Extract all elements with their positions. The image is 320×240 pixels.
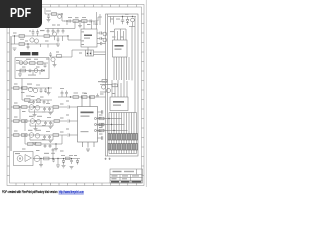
label row3b values <box>30 140 34 141</box>
capacitor C31 <box>48 135 51 139</box>
plus mark 2 <box>109 158 111 161</box>
label C4 value <box>46 11 51 12</box>
wire row1 main <box>11 106 66 108</box>
resistor R13 <box>57 55 62 58</box>
wire center rail <box>58 96 106 98</box>
junction dot k <box>19 106 20 107</box>
diode D3 <box>76 159 79 165</box>
title block row line 3 <box>110 179 143 181</box>
U2 right pin 3 wire <box>97 43 101 45</box>
junction dot d <box>66 20 67 21</box>
capacitor C34 <box>49 144 52 148</box>
junction dot h <box>21 87 22 88</box>
title block field text row2 <box>112 175 118 176</box>
label center values <box>60 88 64 89</box>
capacitor C2 <box>36 30 39 37</box>
ground GND10 <box>86 149 90 151</box>
wire bottom main <box>33 158 80 160</box>
junction dot g <box>48 87 49 88</box>
junction dot x <box>113 130 114 131</box>
resistor R21 <box>22 120 28 123</box>
transistor Q18 <box>35 106 40 111</box>
wire input vertical <box>44 8 46 14</box>
wire row3b <box>25 143 62 145</box>
ladder resistor bank row 2 <box>108 144 110 151</box>
transistor Q5 <box>103 32 107 36</box>
IC U2 <box>81 29 97 47</box>
junction dot q <box>40 158 41 159</box>
transistor Q19 <box>30 119 35 124</box>
svg-text:PDF created with FinePrint pdf: PDF created with FinePrint pdfFactory tr… <box>2 190 58 194</box>
transistor Q12 <box>106 88 110 92</box>
label speck 42 <box>84 93 87 94</box>
capacitor C42 <box>95 23 98 24</box>
junction dot r <box>57 158 58 159</box>
frame inner border <box>10 7 142 183</box>
transistor Q10 <box>131 18 135 22</box>
coupling capacitor C32 <box>66 133 78 136</box>
label speck 36 <box>112 93 116 94</box>
resistor R44 <box>102 80 107 83</box>
capacitor C13 <box>101 42 106 45</box>
relay box K1 <box>86 50 94 56</box>
wire vertical inner left bus <box>107 14 109 156</box>
U2 pin marks left <box>82 31 85 34</box>
label speck 41 <box>74 155 77 156</box>
junction dot i <box>81 96 82 97</box>
junction dot m <box>24 120 25 121</box>
wire input top <box>45 13 62 15</box>
label speck 22 <box>60 104 64 105</box>
junction dot a <box>14 35 15 36</box>
label speck 19 <box>42 125 46 126</box>
U3 top pin wires <box>115 29 127 40</box>
resistor R5 <box>73 20 79 23</box>
plus mark 1 <box>105 158 107 161</box>
capacitor C14 <box>44 63 47 68</box>
label speck 28 <box>99 115 103 116</box>
wire vertical feed U2 b <box>99 14 101 25</box>
capacitor C12 <box>100 37 103 40</box>
output tap row line 3 <box>97 130 128 132</box>
capacitor C17 <box>44 88 47 93</box>
capacitor C15 <box>29 69 32 73</box>
label jack <box>15 153 20 154</box>
label speck 8 <box>16 60 20 61</box>
ladder vertical wires <box>109 113 137 154</box>
capacitor C20 <box>49 52 52 57</box>
label speck 1 <box>13 33 17 34</box>
svg-text:http://www.fineprint.com: http://www.fineprint.com <box>59 190 84 194</box>
resistor R40 <box>112 84 118 87</box>
frame outer border <box>7 5 144 186</box>
label speck 2 <box>25 41 28 42</box>
wire stub downs <box>67 21 94 26</box>
label speck 16 <box>22 111 26 112</box>
transistor Q4 <box>58 15 62 19</box>
ground GND3 <box>78 26 82 28</box>
resistor R10 <box>14 87 20 90</box>
ground GND17 <box>33 143 37 145</box>
frame zone ticks left <box>7 14 10 176</box>
label speck 5 <box>57 25 60 26</box>
transistor Q11 <box>101 85 105 89</box>
resistor R8 <box>38 62 44 65</box>
capacitor C11 <box>100 31 103 34</box>
resistor R7 <box>30 62 36 65</box>
IC U1 body <box>78 107 98 143</box>
label speck 24 <box>60 132 64 133</box>
label speck 33 <box>112 37 116 38</box>
junction dot s <box>52 158 53 159</box>
capacitor C19 <box>43 100 46 104</box>
wire row1 stub gnd <box>34 110 36 115</box>
ladder resistor bank row 1 <box>108 134 110 141</box>
label speck 14 <box>40 97 44 98</box>
wire stub left top <box>111 17 114 25</box>
wire stub v <box>48 88 50 93</box>
output tap row line 1 <box>97 118 122 120</box>
capacitor C35 <box>102 110 103 113</box>
wire U2 top stubs <box>84 21 92 29</box>
wire stub q16 <box>54 62 56 65</box>
transistor Q9 <box>34 69 38 73</box>
label speck 23 <box>60 118 64 119</box>
title block footer text row <box>111 181 119 183</box>
wire top feed horizontal <box>108 16 136 18</box>
junction dot p <box>55 143 56 144</box>
wire stub d <box>62 36 64 41</box>
wire main horizontal A <box>12 35 60 37</box>
wire row1 branch <box>29 109 53 113</box>
diode D8 <box>126 17 129 25</box>
transistor Q8 <box>24 61 28 65</box>
wire mid <box>50 50 86 57</box>
title block column divider 2 <box>130 175 132 184</box>
capacitor C10 <box>62 29 65 34</box>
transistor Q17 <box>29 105 34 110</box>
wire gnd stub 1 <box>40 159 42 165</box>
transistor Q22 <box>35 134 40 139</box>
capacitor C33 <box>44 144 47 148</box>
label bottom values <box>44 153 49 154</box>
capacitor C8 <box>52 29 55 34</box>
label speck 31 <box>110 19 114 20</box>
label speck 21 <box>42 139 46 140</box>
ground GND7 <box>33 115 37 117</box>
connector pin circle P1 <box>94 117 96 119</box>
capacitor C18 <box>32 100 35 104</box>
wire series row <box>64 20 98 22</box>
label speck 29 <box>99 127 103 128</box>
label speck 26 <box>66 115 69 116</box>
capacitor C16 <box>40 88 43 93</box>
wire left bus vertical <box>10 36 12 151</box>
label speck 12 <box>21 92 25 93</box>
U1 label text <box>81 112 94 114</box>
resistor R28 <box>44 157 50 160</box>
frame zone ticks right <box>142 14 145 176</box>
title block column divider 3 <box>136 169 138 175</box>
input jack box <box>14 152 34 166</box>
jack circle J1 <box>17 156 23 162</box>
label speck 6 <box>75 17 79 18</box>
label speck 25 <box>66 101 69 102</box>
capacitor C1 <box>32 30 35 37</box>
resistor R29 <box>66 157 71 160</box>
U2 right pin 1 wire <box>97 32 100 34</box>
resistor R16 <box>90 96 95 99</box>
label POWER title bar 1 <box>20 52 31 55</box>
label speck 35 <box>104 81 108 82</box>
resistor R14 <box>73 96 79 99</box>
label speck 7 <box>87 24 91 25</box>
wire right bus <box>132 17 135 113</box>
label speck 18 <box>14 117 18 118</box>
resistor R3 <box>44 35 50 38</box>
transistor Q6 <box>103 38 107 42</box>
label speck 32 <box>125 14 129 15</box>
U2 right pin 2 wire <box>97 38 100 40</box>
junction dot e <box>79 20 80 21</box>
transistor Q3 <box>52 32 56 36</box>
label speck 45 <box>79 53 82 54</box>
K1 contact dots <box>87 53 88 54</box>
junction dot u <box>132 16 133 17</box>
title block row line 2 <box>110 177 143 179</box>
transistor Q2 <box>34 39 38 43</box>
label speck 44 <box>56 52 59 53</box>
diode D2 <box>62 161 65 165</box>
resistor R19 <box>53 106 59 109</box>
wire row2 branch <box>30 123 53 126</box>
connector pin circle P2 <box>94 123 96 125</box>
capacitor C6 <box>90 19 91 22</box>
capacitor C5 <box>69 19 70 22</box>
coupling capacitor C26 <box>66 105 78 108</box>
capacitor C9 <box>57 29 60 34</box>
label speck 37 <box>100 94 104 95</box>
ground GND11 <box>39 165 43 167</box>
junction dot v <box>108 118 109 119</box>
title block title text <box>113 171 122 172</box>
U1 right pin stubs <box>98 112 102 138</box>
wire row interconnect <box>20 107 25 131</box>
ground GND4 <box>18 74 22 76</box>
coupling capacitor C29 <box>66 119 78 122</box>
label row2 values <box>29 116 34 117</box>
wire preamp row <box>100 85 112 93</box>
transistor Q15 <box>37 98 41 102</box>
ground GND16 <box>49 140 53 142</box>
wire stub down 3 <box>63 159 65 161</box>
label row3 values <box>28 130 33 131</box>
wire main horizontal B <box>11 43 59 45</box>
capacitor C43 <box>57 36 60 43</box>
title block field text row3 <box>112 178 117 179</box>
capacitor C25 <box>48 107 51 111</box>
ground GND15 <box>49 126 53 128</box>
capacitor C23 <box>96 94 99 98</box>
ground GND1 <box>13 48 17 50</box>
resistor R6 <box>82 20 88 23</box>
tone/control section enclosure box <box>106 14 139 156</box>
connector pin circle P3 <box>94 129 96 131</box>
diode D1 <box>42 69 45 72</box>
ground GND9 <box>54 149 58 151</box>
label speck 10 <box>36 67 40 68</box>
jack inner dot <box>19 158 21 160</box>
resistor R20 <box>14 120 20 123</box>
page right edge <box>145 0 147 187</box>
transistor Q21 <box>29 133 34 138</box>
junction dot center <box>70 96 71 97</box>
U3 bottom pin bus <box>114 57 129 80</box>
junction dot n <box>35 120 36 121</box>
transistor Q7 <box>19 61 23 65</box>
label rail2 values <box>27 84 32 85</box>
ground GND13 <box>62 166 66 168</box>
capacitor C30 <box>43 135 46 139</box>
tap resistor R42 <box>99 123 104 126</box>
label speck 20 <box>14 131 18 132</box>
capacitor C21 <box>61 91 64 98</box>
transistor Q23 <box>34 156 40 162</box>
capacitor C36 <box>102 123 103 126</box>
U2 bottom stub <box>87 47 89 50</box>
tap resistor R43 <box>99 129 104 132</box>
wire stub bottom <box>20 71 40 75</box>
resistor ladder top rail <box>109 112 137 114</box>
ladder bottom rail <box>109 153 137 155</box>
label speck 15 <box>14 103 18 104</box>
resistor R25 <box>53 134 59 137</box>
output tap row line 2 <box>97 124 125 126</box>
wire row C to caps <box>45 28 75 30</box>
transistor Q20 <box>36 120 41 125</box>
wire row3 branch <box>30 137 53 140</box>
label speck 27 <box>66 129 69 130</box>
label row1 values <box>28 102 33 103</box>
power section enclosure <box>15 58 49 79</box>
junction dots bottom <box>63 158 64 159</box>
transistor Q1 <box>30 38 34 42</box>
junction dot w <box>111 124 112 125</box>
junction dot l <box>34 106 35 107</box>
top section value labels <box>116 19 120 20</box>
wire row2 main <box>11 120 66 122</box>
wire row3 main <box>11 134 66 136</box>
PDF badge <box>0 0 42 28</box>
wire pins to top components <box>115 28 127 30</box>
K1 internal marks <box>88 50 91 56</box>
mid amp cluster: transistor Q16 <box>51 57 55 61</box>
label cluster top-left <box>40 30 45 31</box>
capacitor C41 <box>70 159 73 165</box>
ground GND5 <box>47 93 51 95</box>
wire gnd stub 2 <box>57 159 59 166</box>
wire mid rail 3 <box>22 99 52 101</box>
junction dot t <box>122 16 123 17</box>
capacitor C3 <box>27 44 30 50</box>
resistor R11 <box>22 87 28 90</box>
junction dot b <box>27 43 28 44</box>
wire row2 stub gnd <box>35 124 37 129</box>
capacitor C7 <box>47 29 50 34</box>
resistor R1 <box>19 35 25 38</box>
junction dot j <box>89 96 90 97</box>
junction dot f <box>67 35 68 36</box>
U1 bottom pin wires <box>83 142 95 148</box>
U4 label text <box>113 101 124 103</box>
wire Q3 stub <box>50 36 55 40</box>
junction dot o <box>24 134 25 135</box>
junction dot c <box>61 13 62 14</box>
ground GND6 <box>53 65 57 67</box>
resistor R15 <box>82 96 88 99</box>
transistor Q13 <box>28 87 32 91</box>
label speck 38 <box>36 150 40 151</box>
ground GND14 <box>70 167 74 169</box>
resistor R17 <box>14 106 20 109</box>
resistor R2 <box>19 43 25 46</box>
ground GND2 <box>47 20 51 22</box>
ground GND8 <box>34 129 38 131</box>
wire K1 out <box>94 52 106 55</box>
resistor R26 <box>28 143 34 146</box>
capacitor C38 <box>52 159 55 163</box>
label speck 34 <box>120 37 124 38</box>
wire stub down T1 <box>15 36 49 48</box>
resistor R23 <box>14 134 20 137</box>
capacitor C40 <box>121 17 124 25</box>
label speck 13 <box>31 96 35 97</box>
wire mid rail 2 <box>11 87 52 89</box>
label R5 value <box>68 17 72 18</box>
label speck 17 <box>42 112 46 113</box>
U3 label text <box>115 45 124 47</box>
jack speaker triangle <box>25 155 32 162</box>
wire supply rail <box>16 62 48 64</box>
transistor Q14 <box>33 88 37 92</box>
resistor R24 <box>22 134 28 137</box>
capacitor C37 <box>102 136 103 139</box>
IC U3 <box>113 40 128 57</box>
label speck 3 <box>45 41 49 42</box>
label R6 value <box>82 17 86 18</box>
wire row3b stubs <box>25 135 62 149</box>
resistor R27 <box>36 143 42 146</box>
title block outline <box>110 169 143 183</box>
title block row line 1 <box>110 174 143 176</box>
IC U4 <box>110 97 128 111</box>
wire stub connect <box>22 79 48 104</box>
label speck 39 <box>22 149 26 150</box>
capacitor C27 <box>44 121 47 125</box>
U2 label text <box>84 35 92 37</box>
capacitor C22 <box>65 91 68 98</box>
label speck 9 <box>22 67 26 68</box>
wire Q10 lead <box>129 22 135 27</box>
wire right connect <box>75 17 102 29</box>
frame zone ticks bottom <box>16 183 136 186</box>
label POWER title bar 2 <box>32 52 39 55</box>
label Q1 value <box>29 31 31 32</box>
U4 top pins <box>112 80 127 97</box>
resistor R4 <box>52 13 57 16</box>
label speck 40 <box>60 151 64 152</box>
label bottom center values <box>61 155 65 156</box>
